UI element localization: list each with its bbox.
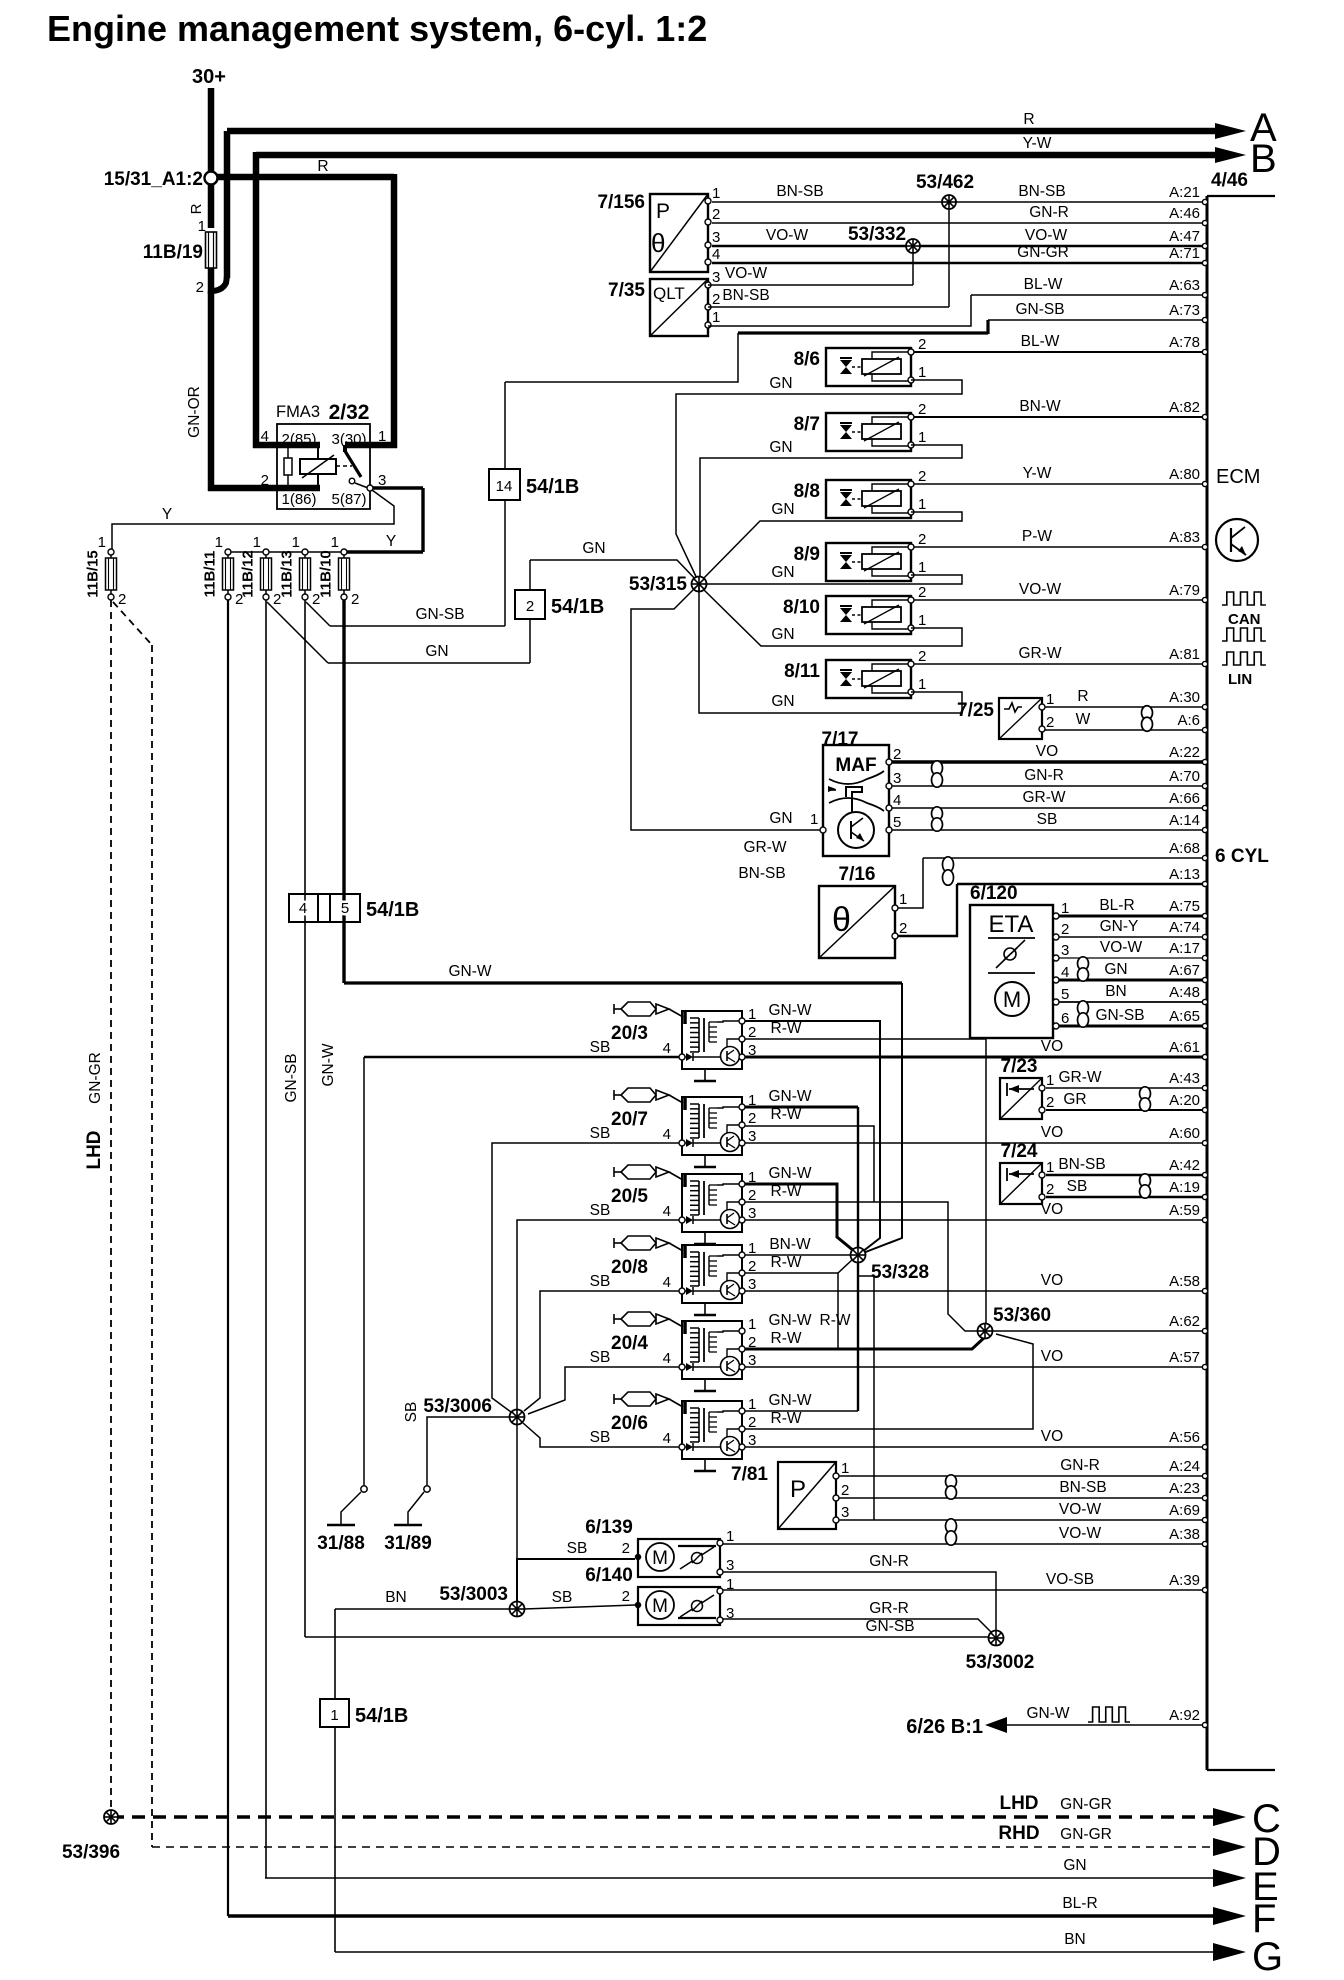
wire row A:78 (911, 351, 1204, 353)
svg-text:R-W: R-W (771, 1020, 802, 1037)
svg-text:BN-SB: BN-SB (722, 287, 769, 304)
svg-text:M: M (652, 1548, 668, 1569)
svg-text:1: 1 (918, 496, 926, 513)
wire GN into MAF pin 1 (698, 584, 700, 591)
wire row A:61 (742, 1056, 1204, 1059)
svg-text:A:92: A:92 (1169, 1707, 1200, 1724)
svg-text:A:78: A:78 (1169, 334, 1200, 351)
svg-text:A:68: A:68 (1169, 840, 1200, 857)
wire Y thick from relay pin 3 (373, 486, 423, 489)
wire R-W 20/5 to 53/360 (745, 1202, 980, 1331)
svg-text:LHD: LHD (999, 1793, 1038, 1814)
pin 3 of 20/7 (739, 1140, 745, 1146)
svg-text:GN-W: GN-W (768, 1312, 811, 1329)
junction 53/3002 (989, 1631, 1004, 1646)
svg-text:8/9: 8/9 (794, 544, 820, 565)
svg-text:6/140: 6/140 (585, 1565, 633, 1586)
fuse 11B/10 (341, 549, 347, 555)
svg-text:2: 2 (526, 598, 534, 615)
relay 2/32 FMA3 (261, 401, 387, 509)
svg-text:GN-W: GN-W (448, 963, 491, 980)
svg-text:4: 4 (663, 1040, 671, 1057)
svg-text:3: 3 (748, 1042, 756, 1059)
svg-text:VO-W: VO-W (1100, 939, 1143, 956)
twisted pair 6/120 3-4 (1078, 957, 1089, 981)
wire row A:66 (889, 807, 1204, 809)
wire row A:63 (971, 294, 1204, 296)
svg-text:3: 3 (712, 229, 720, 246)
pin 2 of 20/6 (739, 1426, 745, 1432)
pin 6 of 6/120 (1053, 1023, 1059, 1029)
wire G BN (335, 1951, 1214, 1953)
wire 7/16 pin1 to A:68 (898, 858, 923, 908)
K-line symbol (transistor in circle) (1216, 519, 1258, 561)
svg-text:2: 2 (351, 591, 359, 608)
twisted pair 7/81 1-2 (946, 1475, 957, 1499)
svg-text:GN: GN (771, 564, 794, 581)
svg-text:A:22: A:22 (1169, 744, 1200, 761)
wire SB 20/8 to 53/3006 (524, 1291, 679, 1411)
svg-text:P-W: P-W (1022, 528, 1053, 545)
svg-text:A:38: A:38 (1169, 1526, 1200, 1543)
svg-text:1: 1 (253, 534, 261, 551)
svg-text:GN: GN (769, 375, 792, 392)
svg-text:BL-R: BL-R (1099, 897, 1134, 914)
svg-text:11B/13: 11B/13 (279, 550, 296, 598)
sensor 7/23 (1000, 1056, 1042, 1119)
fuse 11B/12 (263, 549, 269, 555)
wire BN from arrow G riser to 53/3003 (335, 1608, 510, 1610)
junction 53/332 (912, 246, 914, 285)
svg-text:GR-R: GR-R (869, 1600, 909, 1617)
sensor 7/35 (QLT) (608, 279, 708, 336)
svg-text:GR: GR (1063, 1091, 1086, 1108)
ignition coil 20/8 (611, 1236, 742, 1315)
svg-text:A:30: A:30 (1169, 689, 1200, 706)
svg-text:VO-W: VO-W (1059, 1501, 1102, 1518)
junction 53/3003 (510, 1602, 525, 1617)
svg-text:11B/10: 11B/10 (318, 550, 335, 598)
pin 2 of 6/139 (635, 1554, 640, 1559)
svg-text:GN-R: GN-R (869, 1553, 909, 1570)
svg-text:2: 2 (622, 1540, 630, 1557)
connector box 14 54/1B (504, 382, 506, 469)
wire GN drop from fuse 11B/12 to arrow E (265, 600, 267, 1878)
pin 2 of 8/6 (908, 349, 914, 355)
svg-text:11B/11: 11B/11 (202, 551, 219, 598)
svg-text:7/35: 7/35 (608, 280, 645, 301)
wire GN-SB to 53/3002 (305, 1636, 989, 1638)
fuse 11B/13 (302, 549, 308, 555)
svg-text:R-W: R-W (771, 1330, 802, 1347)
svg-text:2: 2 (918, 336, 926, 353)
wire row A:13 (957, 883, 1204, 885)
pin 4 of 20/8 (679, 1288, 685, 1294)
pin 2 of 20/7 (739, 1122, 745, 1128)
pin 1 of 7/24 (1039, 1172, 1045, 1178)
svg-text:GN-OR: GN-OR (186, 386, 203, 438)
pin 2 of 20/4 (739, 1346, 745, 1352)
svg-text:GN: GN (582, 540, 605, 557)
svg-text:2: 2 (918, 531, 926, 548)
wire row A:6 (1042, 729, 1204, 731)
svg-text:A:13: A:13 (1169, 866, 1200, 883)
wire C LHD GN-GR dashed thick (111, 1815, 1214, 1818)
wire 7/35 pin3 VO-W (708, 284, 913, 286)
wire GN-W 20/3 to 53/328 (745, 1021, 880, 1252)
pin 1 of 8/11 (908, 689, 914, 695)
svg-text:1: 1 (918, 676, 926, 693)
svg-text:6/26 B:1: 6/26 B:1 (906, 1716, 983, 1738)
wire 7/35 pin2 BN-SB (708, 306, 949, 308)
pin 4 of 20/6 (679, 1444, 685, 1450)
injector 8/11 (784, 660, 911, 698)
svg-text:1: 1 (1061, 900, 1069, 917)
wire row A:14 (889, 829, 1204, 831)
svg-text:BN-W: BN-W (769, 1236, 811, 1253)
svg-text:BN-SB: BN-SB (1059, 1479, 1106, 1496)
junction 53/3006 (510, 1410, 525, 1425)
wire row A:75 (1056, 915, 1204, 918)
svg-text:4: 4 (663, 1203, 671, 1220)
wire SB 20/5 to 53/3006 (517, 1220, 679, 1410)
wire row A:21 (712, 201, 1204, 203)
wire GN of 8/11 (699, 591, 962, 713)
wire SB 20/4 to 53/3006 (528, 1367, 679, 1414)
svg-text:R: R (1077, 688, 1088, 705)
svg-text:1: 1 (841, 1460, 849, 1477)
svg-text:GN-SB: GN-SB (415, 606, 464, 623)
svg-text:1: 1 (726, 1528, 734, 1545)
svg-text:GN-GR: GN-GR (87, 1052, 104, 1104)
svg-text:31/88: 31/88 (317, 1533, 365, 1554)
twisted pair MAF 4-5 (932, 807, 943, 831)
svg-text:1: 1 (1046, 1072, 1054, 1089)
svg-text:A:42: A:42 (1169, 1157, 1200, 1174)
svg-text:2: 2 (712, 291, 720, 308)
sensor 7/24 (1000, 1141, 1042, 1204)
svg-text:A:75: A:75 (1169, 898, 1200, 915)
svg-text:GN-W: GN-W (320, 1043, 337, 1086)
pin 1 of 7/25 (1039, 704, 1045, 710)
svg-text:20/7: 20/7 (611, 1109, 648, 1130)
wire R-W 20/7 jog (745, 1126, 874, 1202)
svg-text:3: 3 (1061, 942, 1069, 959)
svg-text:A:56: A:56 (1169, 1429, 1200, 1446)
pin 2 of 6/120 (1053, 934, 1059, 940)
pin 2 of 8/8 (908, 481, 914, 487)
svg-text:VO: VO (1041, 1348, 1063, 1365)
svg-text:53/332: 53/332 (848, 224, 906, 245)
svg-text:1: 1 (378, 428, 386, 445)
wire LHD dashed from fuse 11B/15 pin2 (110, 600, 112, 1810)
svg-text:R-W: R-W (771, 1410, 802, 1427)
pin 2 of 7/23 (1039, 1107, 1045, 1113)
svg-text:4: 4 (261, 428, 269, 445)
svg-text:VO-W: VO-W (725, 265, 768, 282)
svg-text:2: 2 (1046, 1181, 1054, 1198)
svg-text:4: 4 (893, 792, 901, 809)
svg-text:3: 3 (748, 1352, 756, 1369)
pin 1 of 20/5 (739, 1181, 745, 1187)
pin 1 of 20/4 (739, 1328, 745, 1334)
svg-text:A:20: A:20 (1169, 1092, 1200, 1109)
svg-text:A:14: A:14 (1169, 812, 1200, 829)
wire GN to star point 53/315 (530, 560, 699, 583)
svg-text:4/46: 4/46 (1211, 170, 1248, 191)
pin 2 of 8/11 (908, 661, 914, 667)
injector 8/9 (794, 543, 911, 581)
pin 2 of 7/25 (1039, 726, 1045, 732)
svg-text:2: 2 (1061, 921, 1069, 938)
pin 1 of 20/8 (739, 1252, 745, 1258)
svg-text:A:23: A:23 (1169, 1480, 1200, 1497)
pin 1 of 7/81 (833, 1473, 839, 1479)
wire SB 20/7 to 53/3006 (492, 1143, 679, 1412)
wire row A:24 (838, 1475, 1204, 1477)
svg-text:GR-W: GR-W (1022, 789, 1065, 806)
junction 53/396 (104, 1810, 118, 1824)
svg-text:7/16: 7/16 (839, 864, 876, 885)
svg-text:53/3006: 53/3006 (423, 1396, 492, 1417)
svg-text:2(85): 2(85) (281, 431, 316, 448)
svg-text:53/3002: 53/3002 (966, 1652, 1035, 1673)
svg-text:1: 1 (918, 429, 926, 446)
relay coil (300, 459, 336, 474)
svg-text:SB: SB (590, 1125, 611, 1142)
svg-text:SB: SB (1037, 811, 1058, 828)
svg-text:1: 1 (918, 364, 926, 381)
svg-text:A:63: A:63 (1169, 277, 1200, 294)
svg-text:A:43: A:43 (1169, 1070, 1200, 1087)
svg-text:BN: BN (385, 1589, 407, 1606)
svg-text:8/7: 8/7 (794, 414, 820, 435)
svg-text:A:24: A:24 (1169, 1458, 1200, 1475)
wire GN-W 20/5 to 53/328 (745, 1184, 854, 1251)
wire GN-SB thick segment to ECM A:73 (738, 331, 988, 334)
svg-text:R-W: R-W (771, 1106, 802, 1123)
svg-text:VO-SB: VO-SB (1046, 1571, 1094, 1588)
svg-text:GR-W: GR-W (1018, 645, 1061, 662)
svg-text:SB: SB (590, 1202, 611, 1219)
connector box 4 and 5 54/1B (289, 894, 360, 922)
pin 2 of 7/35 (705, 304, 711, 310)
wire fuse supply bus (228, 551, 345, 553)
pin 3 of 20/3 (739, 1054, 745, 1060)
wire GN of 8/7 (700, 445, 962, 581)
wire row A:81 (911, 663, 1204, 665)
svg-text:GN: GN (425, 643, 448, 660)
svg-text:GN-R: GN-R (1060, 1457, 1100, 1474)
svg-text:M: M (652, 1596, 668, 1617)
wire row A:92 with pulse symbol and arrow to 6/26 B:1 (1007, 1724, 1204, 1726)
svg-text:BL-W: BL-W (1021, 333, 1060, 350)
wire row A:59 (742, 1219, 1204, 1221)
svg-text:GN-W: GN-W (768, 1088, 811, 1105)
svg-text:A:60: A:60 (1169, 1125, 1200, 1142)
pin 3 of 7/35 (705, 282, 711, 288)
pin 4 of 20/3 (679, 1054, 685, 1060)
relay pin 3 terminal (367, 485, 373, 491)
svg-text:20/6: 20/6 (611, 1413, 648, 1434)
pin 3 of 20/8 (739, 1288, 745, 1294)
svg-text:7/81: 7/81 (731, 1464, 768, 1485)
svg-text:GN: GN (769, 439, 792, 456)
pin 1 of 20/7 (739, 1104, 745, 1110)
svg-text:3: 3 (748, 1276, 756, 1293)
pin 1 of 7/16 (892, 905, 898, 911)
wire row A:48 (1056, 1001, 1204, 1003)
svg-text:A:21: A:21 (1169, 184, 1200, 201)
svg-text:A:79: A:79 (1169, 582, 1200, 599)
svg-text:Y-W: Y-W (1023, 135, 1052, 152)
wire A (R) thick to arrow A (227, 128, 1216, 135)
wire row A:71 (712, 262, 1204, 264)
wire GN-W 20/7 through 53/328 to 20/6 pin 1 (745, 1106, 858, 1109)
svg-text:R: R (188, 203, 205, 214)
svg-text:6 CYL: 6 CYL (1215, 846, 1269, 867)
pin 1 of 6/139 (717, 1540, 723, 1546)
ground 31/89 (394, 1524, 422, 1527)
wire row A:80 (911, 483, 1204, 485)
svg-text:GN-Y: GN-Y (1100, 918, 1139, 935)
fuse 11B/19 (206, 232, 217, 268)
pin 4 of 7/17 (886, 805, 892, 811)
pin 4 of 20/4 (679, 1364, 685, 1370)
svg-text:3: 3 (712, 269, 720, 286)
svg-text:20/4: 20/4 (611, 1333, 648, 1354)
svg-text:VO: VO (1041, 1124, 1063, 1141)
svg-text:14: 14 (496, 478, 513, 495)
twisted pair 7/24 (1140, 1174, 1151, 1198)
svg-text:A:62: A:62 (1169, 1313, 1200, 1330)
svg-text:GN-W: GN-W (768, 1392, 811, 1409)
wire GN-OR down to relay (208, 291, 215, 491)
svg-text:4: 4 (663, 1274, 671, 1291)
wire BL-R drop from fuse 11B/11 to arrow F (227, 600, 229, 1916)
wire R from node to relay (217, 174, 394, 181)
svg-text:BN: BN (1064, 1931, 1086, 1948)
pin 1 of 20/3 (739, 1018, 745, 1024)
ignition coil 20/4 (611, 1312, 742, 1391)
wire BN-W 20/8 to 53/328 (745, 1254, 851, 1256)
svg-text:GN-SB: GN-SB (1095, 1007, 1144, 1024)
svg-text:LIN: LIN (1228, 671, 1252, 688)
pin 2 of 7/17 (886, 759, 892, 765)
svg-text:A:47: A:47 (1169, 228, 1200, 245)
wire GN-SB feed line (330, 625, 505, 627)
svg-text:GN: GN (771, 626, 794, 643)
wire stub right of 53/328 (858, 1276, 874, 1520)
CAN bus symbol (1222, 592, 1266, 605)
node 15/31_A1:2 (205, 172, 218, 185)
svg-text:53/360: 53/360 (993, 1305, 1051, 1326)
svg-text:11B/19: 11B/19 (143, 242, 203, 263)
svg-text:A:17: A:17 (1169, 940, 1200, 957)
svg-text:BL-W: BL-W (1024, 276, 1063, 293)
svg-text:VO-W: VO-W (766, 227, 809, 244)
pin 3 of 7/17 (886, 783, 892, 789)
svg-text:BN-SB: BN-SB (776, 183, 823, 200)
pin 5 of 7/17 (886, 827, 892, 833)
wire R leg into relay contact 3(30) (345, 442, 397, 449)
svg-text:53/462: 53/462 (916, 172, 974, 193)
svg-text:VO-W: VO-W (1019, 581, 1062, 598)
wire row A:62 (985, 1330, 1204, 1332)
svg-text:3: 3 (748, 1128, 756, 1145)
pin 1 of 8/9 (908, 572, 914, 578)
svg-text:2: 2 (899, 920, 907, 937)
svg-text:6/139: 6/139 (585, 1517, 633, 1538)
svg-text:2: 2 (712, 206, 720, 223)
pin 1 of 6/140 (717, 1588, 723, 1594)
svg-text:BN-SB: BN-SB (1018, 183, 1065, 200)
svg-text:A:39: A:39 (1169, 1572, 1200, 1589)
ground switch contact 31/89 (424, 1486, 430, 1492)
svg-text:GN: GN (1104, 961, 1127, 978)
svg-text:RHD: RHD (998, 1823, 1039, 1844)
svg-text:8/11: 8/11 (784, 661, 820, 682)
junction 53/360 (978, 1324, 993, 1339)
svg-text:A:81: A:81 (1169, 646, 1200, 663)
svg-text:VO: VO (1041, 1038, 1063, 1055)
wire row A:30 (1042, 706, 1204, 708)
wire row A:69 (838, 1519, 1204, 1521)
svg-text:BN-SB: BN-SB (1058, 1156, 1105, 1173)
wire SB 20/6 from 53/3006 (523, 1423, 679, 1447)
svg-text:2: 2 (118, 591, 126, 608)
svg-text:M: M (1003, 987, 1021, 1012)
wire 30+ feed (208, 88, 215, 172)
wire R-W 20/4 to 53/360 (745, 1337, 985, 1349)
pin 2 of 6/140 (635, 1602, 640, 1607)
pin 3 of 6/139 (717, 1569, 723, 1575)
svg-text:GN-SB: GN-SB (283, 1053, 300, 1102)
svg-text:R: R (1023, 111, 1034, 128)
svg-text:SB: SB (590, 1349, 611, 1366)
svg-text:VO: VO (1041, 1428, 1063, 1445)
wire row A:58 (742, 1290, 1204, 1292)
wire Y thin from relay pin 3 to fuse 11B/15 (112, 490, 394, 550)
wire R-W 20/6 to 53/360 (745, 1334, 1033, 1429)
svg-text:FMA3: FMA3 (276, 403, 320, 421)
wire 7/16 pin2 to A:13 (898, 884, 957, 936)
wire 7/35 pin1 to A:63 (708, 295, 971, 326)
pin 3 of 7/81 (833, 1517, 839, 1523)
wire row A:83 (911, 546, 1204, 548)
wire SB to 6/140 (524, 1605, 635, 1609)
pin 1 of 7/156 (705, 198, 711, 204)
twisted pair MAF 2-3 (932, 761, 943, 787)
wire row A:38 (722, 1543, 1204, 1545)
ground switch contact 31/88 (361, 1486, 367, 1492)
junction 53/462 (948, 202, 950, 307)
svg-text:2: 2 (918, 468, 926, 485)
wire B (Y-W) thick to arrow B (256, 152, 1216, 159)
svg-text:1: 1 (899, 891, 907, 908)
svg-text:GN-W: GN-W (768, 1002, 811, 1019)
svg-text:A:80: A:80 (1169, 466, 1200, 483)
svg-text:2: 2 (1046, 714, 1054, 731)
svg-text:2: 2 (918, 584, 926, 601)
svg-text:53/315: 53/315 (629, 574, 688, 595)
svg-text:5: 5 (893, 814, 901, 831)
pin 1 of 6/120 (1053, 913, 1059, 919)
svg-text:7/24: 7/24 (1001, 1141, 1038, 1162)
wire GN-W drop from fuse 11B/10 (342, 600, 345, 983)
svg-text:3: 3 (841, 1504, 849, 1521)
svg-text:SB: SB (590, 1273, 611, 1290)
